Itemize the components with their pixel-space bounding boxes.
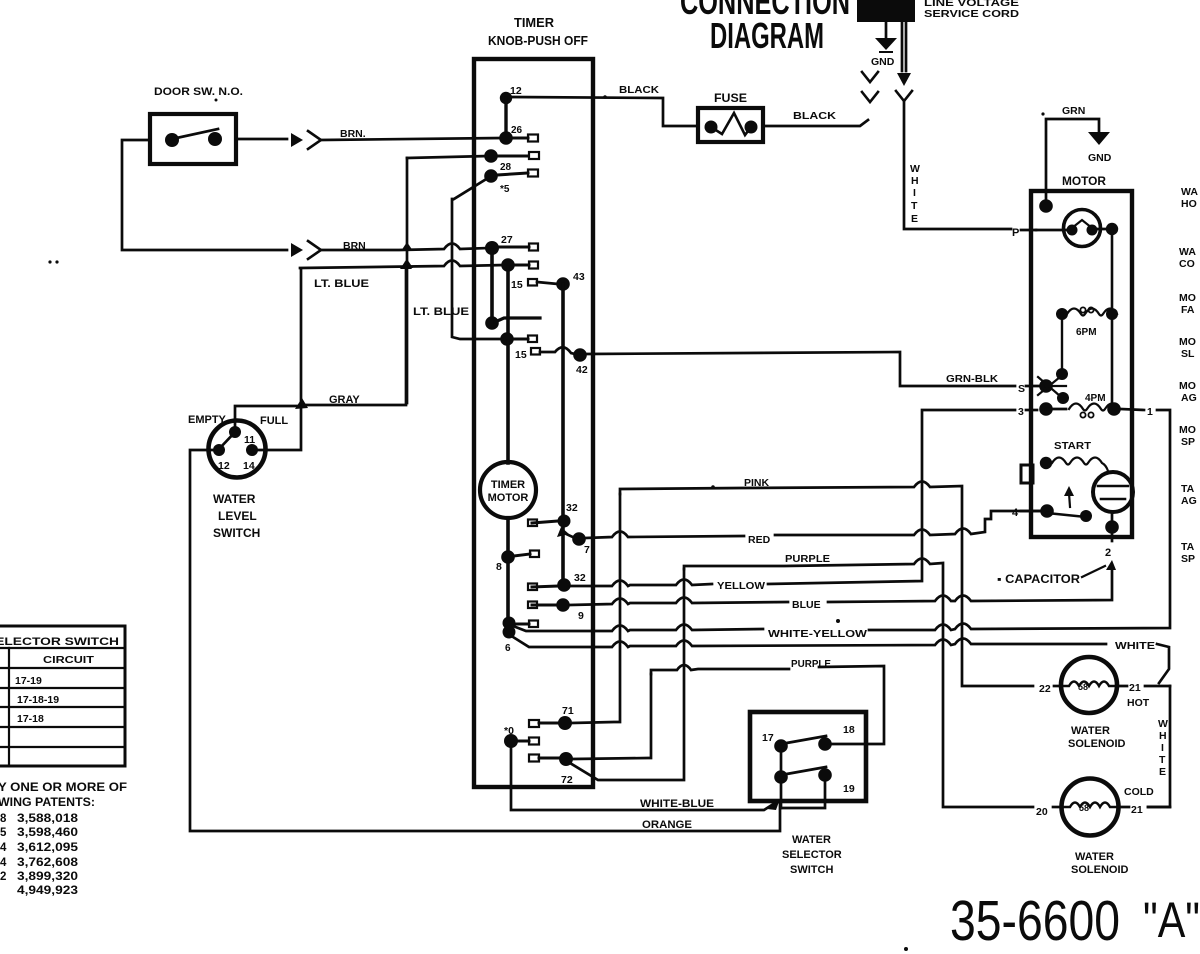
svg-text:WING PATENTS:: WING PATENTS:	[0, 797, 95, 809]
svg-text:DOOR SW. N.O.: DOOR SW. N.O.	[154, 86, 243, 98]
svg-text:S: S	[1018, 383, 1025, 395]
timer terminal dot 43	[556, 277, 570, 291]
wire timer 28 elbow	[407, 156, 487, 158]
svg-text:T: T	[1159, 754, 1166, 766]
wire 17 to box bottom node	[780, 783, 783, 808]
svg-text:11: 11	[244, 434, 255, 446]
timer terminal dot 8	[501, 550, 515, 564]
wire 3 to winding	[1046, 408, 1066, 411]
svg-text:BLACK: BLACK	[793, 110, 836, 122]
wire 21 cold segments	[1118, 806, 1170, 809]
chevron disconnect left upper	[862, 72, 878, 82]
terminal tab 8	[514, 554, 530, 556]
terminal tab 15 lower	[531, 348, 540, 355]
selector contact dot 17	[774, 739, 788, 753]
wire RED (timer 7 to motor 4)	[586, 511, 1041, 538]
wire WHITE right zigzag down to solenoid 21s	[1148, 644, 1170, 807]
svg-text:32: 32	[574, 572, 586, 584]
wire BRN to timer 26	[321, 138, 501, 140]
fuse terminal dot left	[705, 121, 718, 134]
svg-text:3,598,460: 3,598,460	[17, 827, 78, 839]
svg-text:6: 6	[505, 643, 511, 654]
junction arrow 7 to x563	[564, 533, 575, 538]
svg-text:21: 21	[1131, 804, 1143, 816]
svg-text:42: 42	[576, 364, 588, 376]
selector switch table outline	[0, 626, 125, 766]
wire 22 gap segment	[1054, 685, 1061, 688]
svg-text:Y ONE OR MORE OF: Y ONE OR MORE OF	[0, 782, 127, 794]
door switch body	[150, 114, 236, 164]
timer terminal dot 28	[484, 149, 498, 163]
line voltage service cord (black block)	[857, 0, 915, 22]
svg-text:4: 4	[0, 857, 7, 869]
svg-text:H: H	[1159, 730, 1167, 742]
svg-text:LT. BLUE: LT. BLUE	[314, 278, 369, 290]
timer terminal dot 70	[504, 734, 518, 748]
svg-text:FUSE: FUSE	[714, 93, 747, 105]
svg-text:*5: *5	[500, 184, 510, 195]
wire 19 to box bottom	[781, 781, 825, 808]
capacitor plates	[1098, 486, 1128, 499]
wire right node down to main winding	[1111, 229, 1114, 409]
wire cord ground drop	[885, 22, 888, 37]
svg-text:71: 71	[562, 705, 574, 717]
capacitor pointer arrow	[1082, 566, 1105, 577]
protector contact dots	[1067, 225, 1078, 236]
svg-text:HOT: HOT	[1127, 697, 1150, 709]
junction arrow at GRAY/FULL node	[295, 398, 308, 409]
svg-text:22: 22	[1039, 683, 1051, 695]
timer terminal dot x492 y323	[485, 316, 499, 330]
selector contact dot 18	[818, 737, 832, 751]
wire capacitor to 2	[1111, 512, 1114, 527]
svg-text:I: I	[1161, 742, 1164, 754]
water level switch contact dot 12	[213, 444, 225, 456]
wire 72 to PURPLE riser x651	[573, 674, 651, 759]
hot water solenoid circle	[1061, 657, 1117, 713]
wire door switch left loop	[122, 140, 287, 250]
svg-text:8: 8	[0, 813, 7, 825]
main winding 6PM coil	[1067, 309, 1117, 316]
svg-text:35-6600: 35-6600	[950, 889, 1120, 953]
svg-text:5: 5	[0, 827, 7, 839]
terminal tab 72	[529, 755, 539, 762]
wire service cord double line	[902, 22, 906, 71]
table row line	[0, 667, 125, 669]
wire BLACK timer 12 to fuse	[511, 97, 698, 126]
svg-text:43: 43	[573, 271, 585, 283]
speed contact dot upper	[1056, 368, 1068, 380]
svg-text:MOTOR: MOTOR	[488, 492, 529, 504]
svg-text:27: 27	[501, 234, 513, 246]
table row line	[0, 687, 125, 689]
wire BRN to timer 27 (hop at x452)	[321, 244, 489, 251]
motor overload protector circle	[1064, 210, 1101, 247]
wire S dash to box	[1026, 385, 1040, 388]
svg-text:LT. BLUE: LT. BLUE	[413, 306, 469, 318]
svg-text:FULL: FULL	[260, 415, 288, 427]
fuse terminal dot right	[745, 121, 758, 134]
svg-text:72: 72	[561, 774, 573, 786]
timer motor circle	[480, 462, 536, 518]
svg-text:MO: MO	[1179, 292, 1196, 304]
svg-text:4: 4	[0, 842, 7, 854]
svg-text:3,762,608: 3,762,608	[17, 857, 79, 869]
timer terminal dot 7	[572, 532, 586, 546]
wire GRAY	[303, 263, 406, 405]
svg-text:PURPLE: PURPLE	[791, 658, 831, 670]
timer terminal dot 72	[559, 752, 573, 766]
table row line	[0, 746, 125, 748]
centrifugal actuator arrow	[1069, 493, 1070, 507]
wire 21 hot segments	[1117, 685, 1170, 688]
wire 17 down to lower contact	[780, 751, 783, 773]
wire 15 to 42 (hop over x563)	[540, 347, 575, 354]
svg-text:PURPLE: PURPLE	[785, 553, 830, 565]
water selector switch box	[750, 712, 866, 801]
svg-text:14: 14	[243, 460, 255, 472]
timer terminal dot 42	[573, 348, 587, 362]
terminal tab 27	[498, 246, 529, 249]
svg-text:TA: TA	[1181, 541, 1195, 553]
motor box outline	[1031, 191, 1132, 537]
terminal tab 6	[515, 623, 529, 626]
svg-text:17-19: 17-19	[15, 675, 42, 687]
svg-text:WATER: WATER	[1071, 725, 1110, 737]
wire vertical x563 (43 down to 585)	[561, 284, 565, 585]
wire door switch right	[236, 138, 287, 141]
svg-text:BLUE: BLUE	[792, 599, 821, 611]
svg-text:WA: WA	[1181, 186, 1198, 198]
wire vertical x301 LT.BLUE down to water level switch	[300, 269, 303, 405]
svg-text:WATER: WATER	[792, 834, 831, 846]
svg-text:BLACK: BLACK	[619, 84, 659, 96]
svg-text:AG: AG	[1181, 392, 1197, 404]
winding 4PM coil	[1069, 404, 1119, 411]
motor node dot 2 (capacitor bottom)	[1105, 520, 1119, 534]
door switch contact dot left	[165, 133, 179, 147]
svg-text:WHITE-BLUE: WHITE-BLUE	[640, 798, 714, 810]
svg-text:HO: HO	[1181, 198, 1197, 210]
svg-text:SERVICE CORD: SERVICE CORD	[924, 8, 1019, 20]
svg-text:2: 2	[0, 871, 6, 883]
svg-text:TIMER: TIMER	[514, 15, 555, 30]
terminal tab 70	[518, 740, 529, 743]
timer terminal dot 12	[500, 92, 512, 104]
svg-text:START: START	[1054, 440, 1092, 452]
wire vertical x407 from timer 28 down to GRAY	[406, 158, 409, 403]
wire 6PM left dot down to speed contact	[1061, 314, 1063, 374]
arrow down (cord plug)	[897, 73, 911, 86]
svg-text:21: 21	[1129, 682, 1141, 694]
junction arrow at x407 on BRN wire	[401, 242, 413, 251]
svg-text:15: 15	[511, 279, 523, 291]
timer terminal dot x507 y339	[500, 332, 514, 346]
wire 12 to 26 vertical	[504, 98, 507, 138]
svg-text:WA: WA	[1179, 246, 1196, 258]
water level switch contact dot 14	[246, 444, 258, 456]
timer terminal dot *5	[484, 169, 498, 183]
terminal tab 32 lower	[532, 586, 557, 587]
svg-text:MO: MO	[1179, 380, 1196, 392]
svg-text:15: 15	[515, 349, 527, 361]
chevron disconnect left lower	[862, 92, 878, 102]
wire WHITE from cord down to motor P	[904, 101, 1011, 229]
wire GRN-BLK 42 to motor S	[586, 352, 1015, 386]
terminal tab 15 upper	[528, 279, 537, 286]
svg-text:MOTOR: MOTOR	[1062, 174, 1106, 188]
wire 71 tab to dot	[539, 722, 559, 725]
svg-text:4,949,923: 4,949,923	[17, 885, 78, 897]
svg-text:58: 58	[1079, 803, 1089, 813]
svg-text:SWITCH: SWITCH	[790, 864, 833, 876]
wire GRN to motor ground	[1046, 119, 1099, 201]
wire PURPLE upper (72/x684 to solenoid 20 riser x943)	[684, 559, 1033, 808]
selector blade lower	[781, 767, 826, 775]
svg-text:CIRCUIT: CIRCUIT	[43, 654, 95, 666]
svg-text:▪ CAPACITOR: ▪ CAPACITOR	[997, 574, 1081, 586]
fuse element zigzag	[711, 113, 751, 135]
junction arrow top of x406 on LT.BLUE	[400, 260, 412, 269]
wire 72 diagonal to PURPLE riser x684	[570, 569, 684, 780]
wire PINK (71 to solenoid 22 riser)	[620, 482, 1033, 687]
svg-text:8: 8	[496, 561, 502, 573]
wire 15 to 43	[537, 282, 558, 284]
door switch contact dot right	[208, 132, 222, 146]
svg-text:3,612,095: 3,612,095	[17, 842, 79, 854]
timer terminal dot 9	[556, 598, 570, 612]
terminal tab *5	[497, 173, 528, 175]
wire LT. BLUE horizontal to timer (hop at x452)	[300, 261, 503, 269]
svg-text:9: 9	[578, 610, 584, 622]
table line under header	[0, 647, 125, 649]
table row line	[0, 726, 125, 728]
wire vertical x452 down	[452, 199, 502, 339]
svg-text:I: I	[913, 187, 916, 199]
svg-text:H: H	[911, 175, 919, 187]
wire 20 gap segment	[1053, 806, 1061, 809]
timer terminal dot 71	[558, 716, 572, 730]
terminal tab (below 27)	[514, 264, 529, 267]
terminal tab 9	[532, 604, 557, 607]
wire P dash to box	[1021, 229, 1036, 232]
start winding dot	[1040, 457, 1052, 469]
wire PURPLE lower (72/x651 to selector 18 riser x884)	[651, 665, 884, 744]
wire timer motor to 8 and 6	[506, 518, 510, 630]
capacitor stub rect on box edge	[1021, 465, 1033, 483]
svg-text:32: 32	[566, 502, 578, 514]
wire BLACK fuse to disconnect	[763, 120, 868, 126]
timer terminal dots 6	[503, 617, 516, 630]
wire WHITE (timer 6 to solenoids)	[513, 637, 1106, 647]
svg-text:W: W	[910, 163, 920, 175]
wire 70 down to WHITE-BLUE	[511, 748, 775, 810]
svg-text:GND: GND	[871, 56, 895, 68]
svg-text:GRN-BLK: GRN-BLK	[946, 373, 998, 385]
svg-text:7: 7	[584, 544, 590, 556]
timer box outline	[474, 59, 593, 787]
svg-text:26: 26	[511, 125, 523, 136]
start winding coil	[1052, 458, 1108, 472]
wire full side from contact 11 up and right	[235, 406, 299, 432]
svg-text:SP: SP	[1181, 553, 1195, 565]
selector contact dot 19	[818, 768, 832, 782]
svg-text:6PM: 6PM	[1076, 327, 1097, 338]
svg-text:TIMER: TIMER	[491, 479, 525, 491]
timer terminal dot 32 lower	[557, 578, 571, 592]
svg-text:KNOB-PUSH OFF: KNOB-PUSH OFF	[488, 33, 588, 48]
centrifugal blade dot	[1080, 510, 1092, 522]
svg-text:19: 19	[843, 783, 855, 795]
timer terminal dot 32 upper	[558, 515, 571, 528]
svg-text:20: 20	[1036, 806, 1048, 818]
start capacitor circle	[1093, 472, 1133, 512]
terminal tab 71	[529, 720, 539, 727]
speed selector contact X	[1038, 377, 1066, 396]
wire 3 dash to box	[1026, 409, 1037, 412]
wire contact 14 to node	[258, 407, 301, 450]
svg-text:DIAGRAM: DIAGRAM	[710, 15, 824, 56]
wire YELLOW (timer 32 to motor 3 riser x922)	[570, 410, 1015, 586]
wire protector to right node	[1098, 228, 1112, 231]
svg-text:4: 4	[1012, 507, 1019, 519]
table row line	[0, 706, 125, 708]
svg-text:PINK: PINK	[744, 477, 770, 489]
wire motor 1 to label	[1120, 409, 1144, 410]
terminal bar at y319	[495, 318, 540, 322]
chevron plug right (Y)	[896, 91, 912, 101]
motor ground terminal dot	[1039, 199, 1053, 213]
svg-text:SL: SL	[1181, 348, 1195, 360]
wire WHITE-YELLOW (timer 6 to motor 1)	[513, 410, 1170, 631]
timer terminal dot 27	[485, 241, 499, 255]
svg-text:58: 58	[1078, 682, 1088, 692]
terminal tab 26	[512, 137, 528, 140]
svg-text:GND: GND	[1088, 152, 1112, 164]
svg-text:MO: MO	[1179, 424, 1196, 436]
disconnect arrow upper	[291, 133, 303, 147]
svg-text:W: W	[1158, 718, 1168, 730]
table column divider	[8, 648, 10, 766]
svg-text:WATER: WATER	[213, 492, 256, 506]
motor terminal dot S	[1039, 379, 1053, 393]
water level switch body circle	[209, 421, 266, 478]
svg-text:3,899,320: 3,899,320	[17, 871, 78, 883]
selector contact dot lower left	[774, 770, 788, 784]
svg-text:12: 12	[510, 85, 522, 97]
svg-text:FA: FA	[1181, 304, 1195, 316]
svg-text:"A": "A"	[1143, 892, 1200, 948]
disconnect chevron lower	[308, 241, 321, 259]
wire vertical 27 down	[490, 250, 494, 323]
svg-text:3,588,018: 3,588,018	[17, 813, 79, 825]
wire P inside to protector	[1036, 229, 1066, 232]
svg-text:SELECTOR: SELECTOR	[782, 849, 842, 861]
cold water solenoid circle	[1062, 779, 1119, 836]
motor terminal dot 3	[1039, 402, 1053, 416]
svg-text:28: 28	[500, 162, 512, 173]
svg-text:ORANGE: ORANGE	[642, 819, 692, 831]
cold solenoid coil	[1062, 803, 1117, 808]
svg-text:RED: RED	[748, 534, 771, 546]
svg-text:CO: CO	[1179, 258, 1195, 270]
wire vertical x508 (265 to 339)	[506, 267, 510, 339]
svg-text:LEVEL: LEVEL	[218, 509, 257, 523]
wire 2 through box bottom	[1111, 527, 1114, 541]
protector bimetal	[1072, 220, 1092, 228]
centrifugal switch blade	[1047, 513, 1086, 517]
svg-text:12: 12	[218, 460, 230, 472]
junction arrow at x407 on LT. BLUE wire	[401, 259, 413, 268]
speed contact dot lower	[1057, 392, 1069, 404]
svg-text:GRN: GRN	[1062, 105, 1085, 117]
svg-text:4PM: 4PM	[1085, 393, 1106, 404]
wire 72 tab to dot	[539, 757, 560, 760]
scan specks	[48, 260, 51, 263]
fuse F1 body	[698, 108, 763, 142]
ground symbol (service cord)	[875, 38, 897, 50]
motor terminal dot 4	[1040, 504, 1054, 518]
wire 71 to PINK riser	[572, 494, 620, 723]
svg-text:18: 18	[843, 724, 855, 736]
svg-text:SOLENOID: SOLENOID	[1068, 738, 1126, 750]
main winding 6PM left dot	[1056, 308, 1068, 320]
motor node dot right of protector	[1106, 223, 1118, 235]
svg-text:1: 1	[1147, 406, 1153, 418]
svg-text:YELLOW: YELLOW	[717, 580, 765, 592]
svg-text:T: T	[911, 200, 918, 212]
svg-text:2: 2	[1105, 547, 1111, 559]
terminal tab 28	[497, 155, 528, 158]
wire diagonal from timer *5	[454, 178, 488, 199]
svg-text:SP: SP	[1181, 436, 1195, 448]
svg-text:E: E	[911, 213, 918, 225]
svg-text:TA: TA	[1181, 483, 1195, 495]
svg-text:WHITE-YELLOW: WHITE-YELLOW	[768, 628, 867, 640]
timer terminal dot 26	[499, 131, 513, 145]
svg-text:17-18: 17-18	[17, 713, 44, 725]
svg-text:WHITE: WHITE	[1115, 640, 1155, 652]
svg-text:SELECTOR SWITCH: SELECTOR SWITCH	[0, 636, 119, 648]
motor node dot 1	[1107, 402, 1121, 416]
svg-text:SWITCH: SWITCH	[213, 526, 260, 540]
timer terminal dot (below 27)	[501, 258, 515, 272]
svg-text:WATER: WATER	[1075, 851, 1114, 863]
water level switch blade 12-11	[219, 431, 236, 449]
svg-text:17-18-19: 17-18-19	[17, 694, 59, 706]
disconnect arrow lower	[291, 243, 303, 257]
svg-text:AG: AG	[1181, 495, 1197, 507]
terminal tab 32 upper	[532, 521, 558, 523]
svg-text:SOLENOID: SOLENOID	[1071, 864, 1129, 876]
wire 12 left and down long run to ORANGE	[190, 450, 780, 831]
terminal tab y339	[513, 338, 528, 341]
hot solenoid coil	[1062, 682, 1116, 687]
svg-text:E: E	[1159, 766, 1166, 778]
selector blade 17-18	[781, 736, 826, 744]
svg-text:P: P	[1012, 227, 1019, 239]
svg-text:MO: MO	[1179, 336, 1196, 348]
wire 4 dash to box	[1021, 510, 1041, 513]
ground symbol (motor)	[1088, 132, 1110, 145]
water level switch contact dot 11	[229, 426, 241, 438]
wire BLUE (timer 9 to motor 2)	[570, 565, 1112, 605]
svg-text:17: 17	[762, 732, 774, 744]
door switch blade	[172, 129, 218, 139]
svg-text:3: 3	[1018, 406, 1024, 418]
timer motor supply vertical x508 (339 to circle)	[506, 341, 510, 463]
svg-text:COLD: COLD	[1124, 786, 1154, 798]
